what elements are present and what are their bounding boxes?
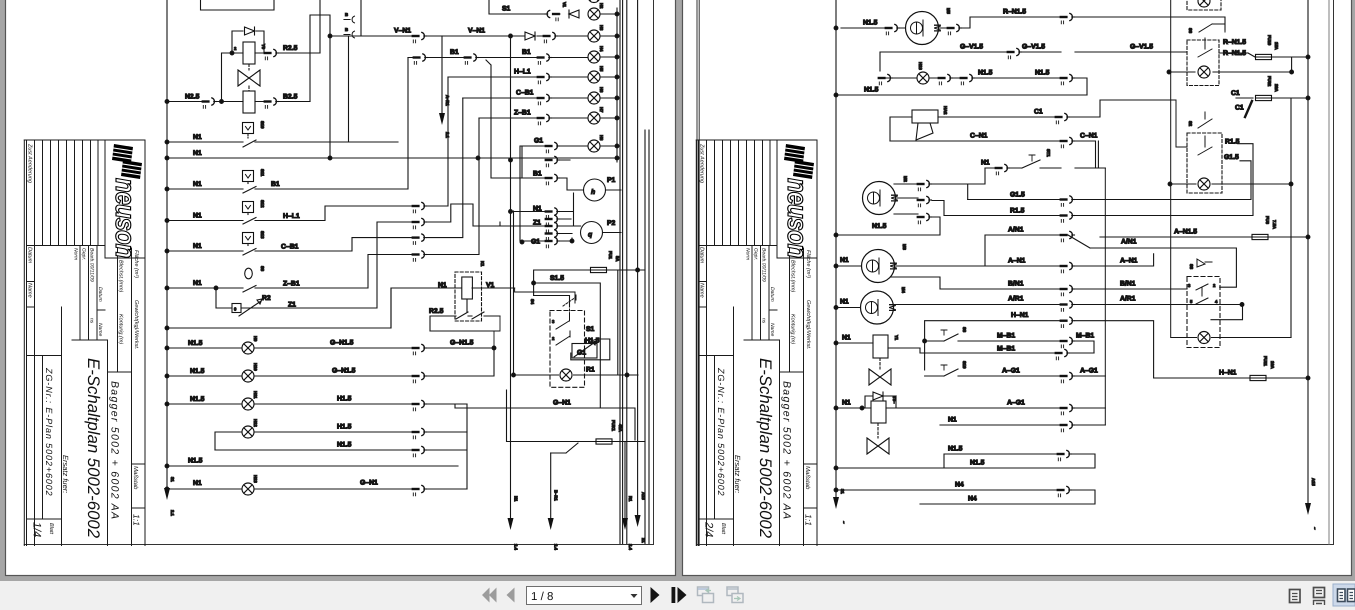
lamp H2 — [588, 8, 600, 20]
wire A/N1 row — [985, 235, 1236, 287]
svg-text:B1: B1 — [522, 49, 531, 56]
svg-text:1 / 8: 1 / 8 — [531, 591, 553, 603]
svg-text:N1.5: N1.5 — [863, 20, 878, 27]
svg-text:R–N1.5: R–N1.5 — [1223, 39, 1246, 46]
fuse FU10 — [1219, 53, 1308, 57]
svg-text:G1: G1 — [577, 350, 586, 357]
svg-text:M2: M2 — [903, 176, 908, 182]
wire C1 row — [938, 100, 1100, 117]
svg-text:S4: S4 — [530, 299, 535, 305]
first page button — [482, 588, 497, 603]
svg-text:H2: H2 — [599, 3, 604, 9]
svg-text:S19: S19 — [962, 361, 967, 369]
fuse FU1 — [534, 270, 645, 375]
svg-text:1/4: 1/4 — [31, 522, 43, 537]
wire top-left loop — [201, 0, 331, 158]
wire H-N1 row — [925, 321, 1308, 378]
lamp H3 — [588, 30, 600, 42]
svg-text:B/N1: B/N1 — [1008, 281, 1024, 288]
svg-text:N1.5: N1.5 — [872, 223, 887, 230]
svg-text:R1.5: R1.5 — [1010, 208, 1025, 215]
wire Y0 left — [222, 53, 244, 102]
wire V-N1 row — [330, 36, 587, 142]
gauge P1 — [522, 146, 584, 190]
wire ST1 loop to M2 — [932, 168, 985, 200]
svg-text:2.4: 2.4 — [514, 544, 519, 550]
svg-text:H11: H11 — [253, 391, 258, 399]
svg-text:V–N1: V–N1 — [394, 28, 411, 35]
lamp H10 row — [167, 348, 494, 376]
node Y0 left — [230, 51, 234, 55]
wire Z-B1 row lamp H7 — [479, 117, 587, 119]
wire A-R1 drop — [441, 36, 443, 113]
svg-text:H7: H7 — [599, 107, 604, 113]
svg-text:B1: B1 — [450, 49, 459, 56]
wire staircase to contacts — [427, 77, 479, 255]
svg-text:40A: 40A — [618, 424, 623, 432]
svg-text:H4: H4 — [599, 46, 604, 52]
svg-text:C–B1: C–B1 — [516, 90, 534, 97]
svg-text:H9: H9 — [253, 336, 258, 342]
wire G-N1 row — [455, 404, 635, 440]
wire B1 row lamp H4 — [408, 58, 587, 179]
svg-text:N1.5: N1.5 — [978, 70, 993, 77]
svg-text:N1: N1 — [981, 160, 990, 167]
svg-text:G1: G1 — [531, 239, 540, 246]
switch S11 — [243, 171, 254, 182]
wire B/N1 row — [891, 277, 1187, 289]
svg-text:20A: 20A — [1274, 84, 1279, 92]
wire V1 jog — [515, 288, 575, 303]
svg-text:R1: R1 — [586, 367, 595, 374]
valve Y3 body — [867, 438, 889, 454]
solenoid Y0 — [243, 42, 255, 64]
svg-text:G1.5: G1.5 — [1224, 154, 1239, 161]
svg-text:Z–B1: Z–B1 — [283, 281, 300, 288]
svg-text:5A: 5A — [615, 256, 620, 261]
svg-text:R–N1.5: R–N1.5 — [1223, 50, 1246, 57]
wire N1.5 row — [215, 432, 467, 489]
wire N1.5 bus row — [836, 94, 1087, 96]
wire R2.5 to top — [255, 52, 320, 54]
wire S1.5 — [534, 283, 601, 408]
svg-text:N1: N1 — [193, 150, 202, 157]
svg-text:FU02: FU02 — [1267, 76, 1272, 87]
fuse FU6 row — [1100, 236, 1308, 238]
svg-text:N4: N4 — [968, 496, 977, 503]
svg-text:M–B1: M–B1 — [1076, 333, 1094, 340]
switch S8 — [245, 268, 253, 279]
wire N1.5 bus row — [167, 465, 458, 467]
solenoid Y1 — [836, 343, 920, 348]
prev page button — [507, 588, 515, 603]
switch block S6 — [1187, 40, 1219, 86]
svg-text:R2: R2 — [262, 295, 271, 302]
page combo box — [527, 587, 642, 605]
switch block above S6 — [1187, 0, 1221, 10]
insert page after icon (disabled) — [727, 587, 743, 603]
switch block S2 — [1187, 133, 1222, 193]
svg-text:G–N1.5: G–N1.5 — [330, 340, 354, 347]
svg-text:G–V1.5: G–V1.5 — [1022, 44, 1045, 51]
svg-text:S6: S6 — [1188, 28, 1193, 34]
svg-text:N1.5: N1.5 — [188, 458, 203, 465]
svg-text:A/R1: A/R1 — [1008, 296, 1024, 303]
svg-text:S2: S2 — [1188, 121, 1193, 127]
svg-text:A–N1: A–N1 — [1008, 258, 1026, 265]
contact column X3 — [413, 202, 427, 212]
svg-text:C–N1: C–N1 — [970, 133, 988, 140]
motor M5 — [906, 12, 943, 45]
svg-text:M–B1: M–B1 — [997, 333, 1015, 340]
switch block S4 S5 — [550, 311, 585, 388]
svg-text:N1: N1 — [193, 480, 202, 487]
lamp H1 partial top — [588, 0, 600, 3]
svg-text:21: 21 — [641, 538, 646, 543]
svg-text:N1: N1 — [840, 299, 849, 306]
wire to arrow B-R1 — [550, 453, 552, 518]
svg-text:V–N1: V–N1 — [468, 28, 485, 35]
svg-text:H1.5: H1.5 — [337, 396, 352, 403]
lamp H12 row — [215, 404, 467, 450]
svg-text:2.1: 2.1 — [445, 132, 450, 138]
svg-text:S1: S1 — [502, 6, 511, 13]
svg-text:A/R1: A/R1 — [1120, 296, 1136, 303]
svg-text:A15: A15 — [641, 492, 646, 500]
svg-text:N1: N1 — [193, 243, 202, 250]
wire N2.5 row — [167, 101, 310, 103]
svg-text:31: 31 — [170, 477, 175, 482]
svg-text:B: B — [345, 12, 348, 17]
wire N1 row — [940, 424, 1105, 426]
title block left page — [24, 140, 145, 546]
wire N4 loop rows — [836, 490, 1095, 504]
wire right page right bus A15 — [1307, 0, 1309, 503]
svg-text:B: B — [345, 27, 348, 32]
wire N1.5 M2 return — [836, 217, 940, 235]
svg-text:H6: H6 — [599, 87, 604, 93]
svg-text:N1: N1 — [842, 400, 851, 407]
svg-text:FU6: FU6 — [1265, 216, 1270, 225]
svg-text:M–B1: M–B1 — [997, 346, 1015, 353]
svg-text:G–N1.5: G–N1.5 — [332, 368, 356, 375]
motor M5 row — [841, 17, 1225, 30]
svg-text:M5: M5 — [946, 8, 951, 14]
net arrow C1 — [1245, 101, 1252, 117]
svg-text:N1.5: N1.5 — [188, 340, 203, 347]
wire N1 row S11 to B1 — [167, 58, 408, 190]
svg-text:H3: H3 — [599, 25, 604, 31]
lamp H5 — [588, 71, 600, 83]
svg-text:FUK1: FUK1 — [611, 420, 616, 432]
svg-text:C–B1: C–B1 — [281, 244, 299, 251]
lamp H18 row — [880, 78, 1087, 95]
svg-text:P2: P2 — [607, 220, 616, 227]
diode V0 bypass — [232, 31, 264, 53]
svg-text:H10: H10 — [253, 363, 258, 371]
svg-text:A–G1: A–G1 — [1007, 400, 1025, 407]
svg-text:C1: C1 — [1034, 109, 1043, 116]
wire to arrow R1 — [624, 442, 626, 519]
lamp H8 — [588, 140, 600, 152]
svg-text:H–L1: H–L1 — [283, 213, 300, 220]
valve Y0 body — [238, 70, 260, 86]
svg-text:S1.5: S1.5 — [550, 275, 564, 282]
svg-text:N1.5: N1.5 — [1035, 70, 1050, 77]
svg-text:G–V1.5: G–V1.5 — [960, 44, 983, 51]
svg-text:R2.5: R2.5 — [283, 45, 298, 52]
svg-text:B/N1: B/N1 — [1120, 281, 1136, 288]
wire N1.5 loop rows — [836, 454, 1095, 468]
continuous layout icon — [1314, 588, 1325, 606]
svg-text:31: 31 — [840, 489, 845, 494]
svg-text:N1: N1 — [842, 335, 851, 342]
svg-text:2.4: 2.4 — [554, 544, 559, 550]
svg-text:H18: H18 — [918, 62, 923, 70]
wire N1 row S12 to H-L1 — [167, 206, 413, 221]
drawing frame — [24, 0, 653, 545]
svg-text:N2.5: N2.5 — [185, 94, 200, 101]
svg-text:G1.5: G1.5 — [1010, 192, 1025, 199]
wire R1.5 row — [932, 144, 1253, 216]
motor M2 — [863, 182, 900, 215]
next page button — [651, 587, 660, 603]
svg-text:A–N1.5: A–N1.5 — [1174, 229, 1197, 236]
switch S10 — [243, 123, 254, 134]
svg-text:P1: P1 — [607, 177, 616, 184]
wire G1 row lamp H8 — [520, 146, 587, 241]
svg-text:HA2: HA2 — [943, 106, 948, 115]
svg-text:7.5A: 7.5A — [1272, 220, 1277, 229]
solenoid Y3 with diode — [836, 407, 1105, 409]
svg-text:2.4: 2.4 — [628, 544, 633, 550]
wire G1.5 row — [968, 161, 1251, 200]
svg-text:10A: 10A — [1270, 361, 1275, 369]
svg-text:V1: V1 — [562, 2, 567, 8]
contact X11.1 — [265, 49, 279, 59]
relay K1 — [455, 272, 482, 321]
contact pin3 — [203, 98, 217, 108]
svg-text:H5: H5 — [599, 66, 604, 72]
diode V2 — [525, 32, 535, 40]
motor M3 — [862, 250, 899, 283]
svg-text:N1.5: N1.5 — [970, 460, 985, 467]
svg-text:A/N1: A/N1 — [1008, 227, 1024, 234]
insert page before icon (disabled) — [698, 587, 714, 603]
svg-text:S12: S12 — [260, 200, 265, 208]
svg-text:ST1: ST1 — [1046, 149, 1051, 157]
svg-text:C1: C1 — [1231, 90, 1240, 97]
svg-text:H–N1: H–N1 — [1011, 312, 1029, 319]
svg-text:FU1: FU1 — [608, 251, 613, 260]
key switch ST1 — [985, 160, 1105, 168]
wire C-N1 row — [890, 141, 1098, 168]
lamp S6 pilot — [1198, 66, 1210, 78]
svg-text:C1: C1 — [1235, 105, 1244, 112]
svg-text:N1: N1 — [193, 213, 202, 220]
svg-text:Y1: Y1 — [894, 335, 899, 341]
wire left supply bus — [166, 0, 168, 488]
wire G1 loop — [571, 339, 610, 360]
svg-text:N1: N1 — [840, 257, 849, 264]
svg-text:B1: B1 — [271, 181, 280, 188]
lamp H13 row — [167, 488, 467, 490]
svg-text:N1: N1 — [948, 417, 957, 424]
lamp S2 pilot — [1198, 178, 1210, 190]
svg-text:B2.5: B2.5 — [283, 94, 298, 101]
svg-text:A–G1: A–G1 — [1002, 368, 1020, 375]
wire N1 row S13 to C-B1 — [167, 238, 413, 251]
wire N1 row S10 — [167, 141, 398, 143]
svg-text:S1: S1 — [586, 326, 595, 333]
svg-text:N1.5: N1.5 — [190, 368, 205, 375]
switch S12 — [243, 202, 254, 213]
svg-text:2/4: 2/4 — [703, 521, 715, 537]
lamp R1 — [514, 374, 639, 376]
wire right page left bus — [835, 0, 837, 497]
svg-text:H1.5: H1.5 — [337, 424, 352, 431]
fuse FUK1 — [507, 390, 646, 442]
horn HA2 — [912, 110, 938, 123]
svg-text:N4: N4 — [955, 482, 964, 489]
svg-text:M4: M4 — [901, 287, 906, 293]
fuse FU02 — [1256, 95, 1272, 100]
svg-text:G–V1.5: G–V1.5 — [1130, 44, 1153, 51]
svg-text:2.1: 2.1 — [170, 510, 175, 516]
right page — [683, 0, 1352, 576]
svg-text:H–L1: H–L1 — [514, 69, 531, 76]
svg-text:A–G1: A–G1 — [1080, 368, 1098, 375]
svg-text:N1: N1 — [193, 280, 202, 287]
wire A-N1 row — [895, 254, 1154, 266]
svg-text:H–N1: H–N1 — [1219, 370, 1237, 377]
connector B.L stubs — [344, 0, 361, 35]
svg-text:A–R1: A–R1 — [445, 95, 450, 106]
wire risers — [1105, 0, 1170, 425]
lamp H7 — [588, 112, 600, 124]
wire A/R1 row — [894, 304, 1243, 306]
resistor R2 — [216, 288, 232, 308]
relay block S3 — [1187, 277, 1220, 348]
svg-text:S13: S13 — [260, 231, 265, 239]
svg-text:N1.5: N1.5 — [337, 442, 352, 449]
wire S1 V1 H2 row — [489, 0, 560, 14]
svg-text:h: h — [591, 189, 595, 196]
single page layout icon — [1290, 590, 1301, 603]
svg-text:FU11: FU11 — [1263, 356, 1268, 367]
svg-text:N1.5: N1.5 — [864, 87, 879, 94]
svg-text:Y0: Y0 — [261, 44, 266, 50]
svg-text:R1.5: R1.5 — [1225, 139, 1240, 146]
svg-text:FU10: FU10 — [1267, 35, 1272, 46]
solenoid B2.5 — [243, 91, 255, 113]
wire C-B1 row lamp H6 — [463, 97, 587, 99]
svg-text:R–N1.5: R–N1.5 — [1003, 9, 1026, 16]
wire N1 long row — [167, 157, 617, 159]
contact on N1 row — [546, 159, 570, 161]
wire frame verticals — [1328, 0, 1330, 544]
svg-text:N1: N1 — [514, 496, 519, 502]
wire bus row — [167, 288, 391, 328]
wire Z1 to gauge — [262, 204, 546, 308]
switch S8 — [925, 334, 1094, 353]
svg-text:A/N1: A/N1 — [1121, 239, 1137, 246]
svg-text:G1: G1 — [534, 138, 543, 145]
title block right page — [696, 140, 817, 546]
svg-text:K1: K1 — [480, 261, 485, 267]
switch S13 — [243, 233, 254, 244]
wire M-B1 return — [920, 348, 1094, 353]
svg-text:H8: H8 — [599, 135, 604, 141]
svg-text:G–N1: G–N1 — [360, 480, 378, 487]
svg-text:N1: N1 — [193, 134, 202, 141]
svg-text:S8: S8 — [962, 327, 967, 333]
valve Y1 body — [869, 369, 891, 385]
lamp S3 pilot — [1171, 304, 1291, 338]
svg-text:Z–B1: Z–B1 — [514, 110, 531, 117]
lamp H9 row — [167, 347, 494, 349]
diode V1 — [569, 10, 579, 18]
lamp H4 — [588, 51, 600, 63]
drawing frame right page — [697, 0, 1334, 546]
svg-text:H12: H12 — [253, 419, 258, 427]
wire H-L1 row lamp H5 — [448, 76, 587, 78]
contact pin2 — [265, 98, 279, 108]
lamp H11 row — [167, 403, 467, 405]
svg-text:S10: S10 — [260, 121, 265, 129]
svg-text:B–R1: B–R1 — [554, 490, 559, 501]
svg-text:G–N1.5: G–N1.5 — [450, 340, 474, 347]
svg-text:S8: S8 — [260, 266, 265, 272]
svg-text:A15: A15 — [1311, 478, 1316, 486]
last page button — [672, 587, 676, 603]
svg-text:M3: M3 — [902, 244, 907, 250]
svg-text:C–N1: C–N1 — [1080, 133, 1098, 140]
svg-text:N1: N1 — [193, 181, 202, 188]
svg-text:N1.5: N1.5 — [948, 446, 963, 453]
svg-text:H13: H13 — [253, 475, 258, 483]
two page layout icon (selected) — [1333, 584, 1355, 606]
svg-text:Y3–: Y3– — [892, 396, 897, 404]
motor M4 — [861, 291, 898, 324]
svg-text:G–N1: G–N1 — [553, 400, 571, 407]
svg-text:S11: S11 — [260, 169, 265, 177]
svg-text:15A: 15A — [1274, 42, 1279, 50]
svg-text:S3: S3 — [1189, 264, 1194, 270]
lamp H6 — [588, 92, 600, 104]
svg-text:R2.5: R2.5 — [429, 308, 444, 315]
svg-text:R1: R1 — [628, 496, 633, 502]
left page — [6, 0, 676, 576]
switch S19 — [925, 369, 1106, 376]
svg-text:N1.5: N1.5 — [190, 396, 205, 403]
wire N1 row S8 to Z-B1 — [167, 255, 413, 289]
svg-text:B1: B1 — [533, 171, 542, 178]
wire risers mid — [511, 36, 514, 518]
wire right bus verticals — [617, 0, 649, 544]
svg-text:A–N1: A–N1 — [1120, 258, 1138, 265]
wire G-V1.5 row — [880, 52, 1187, 71]
toolbar strip — [0, 581, 1355, 610]
